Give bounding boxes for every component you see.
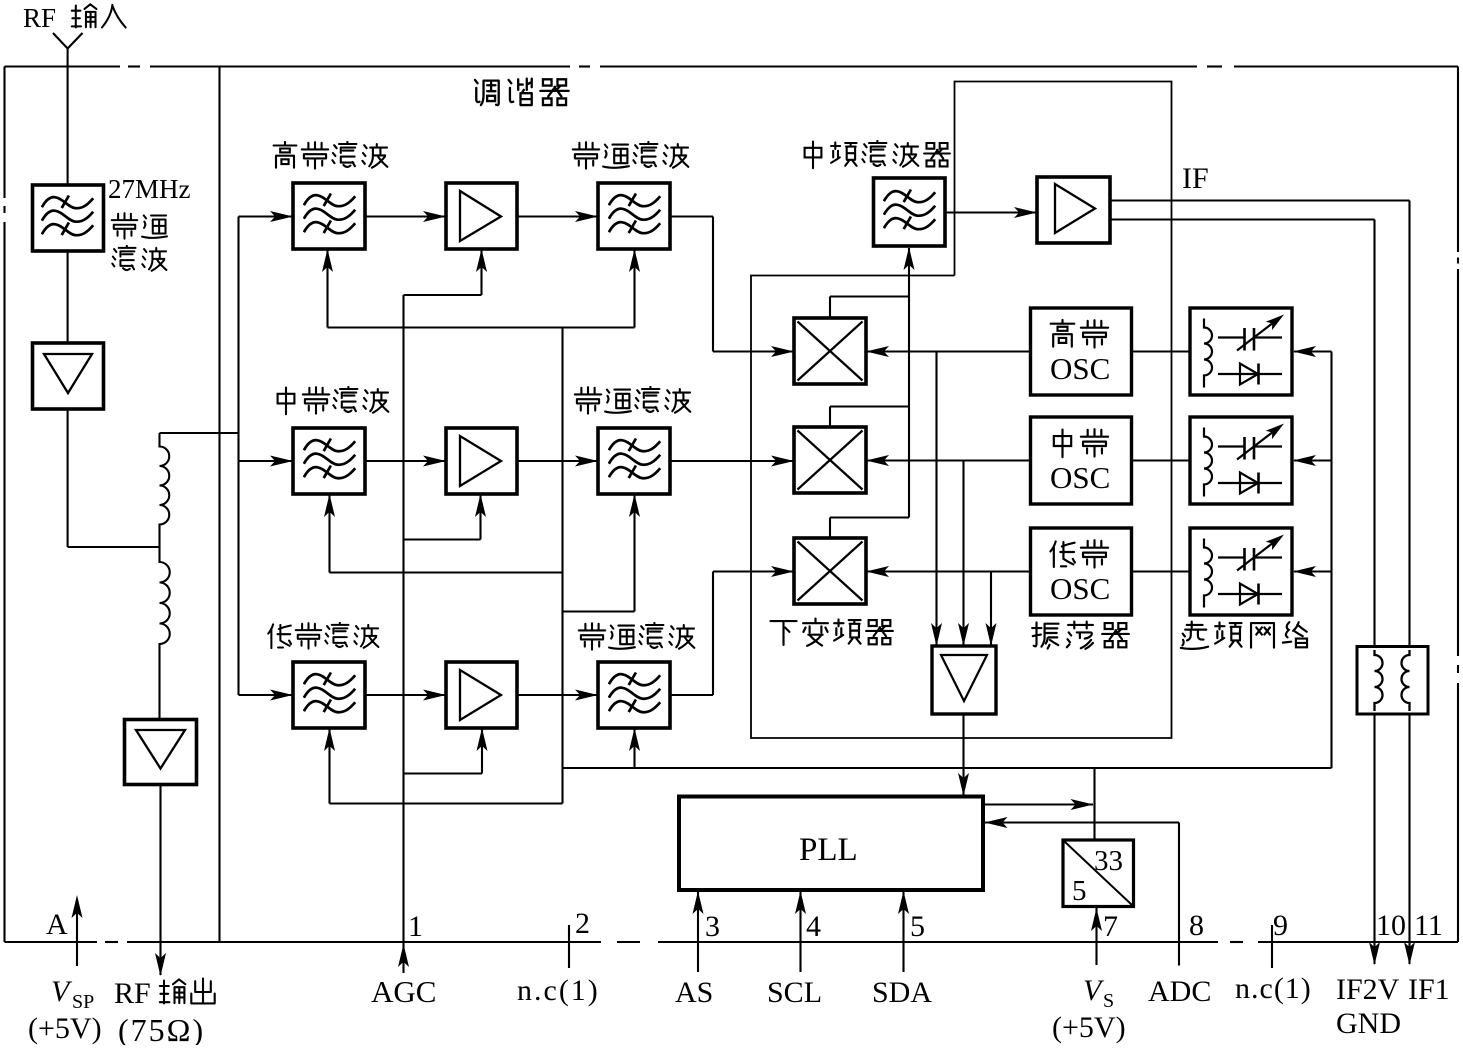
label nc1 right bbox=[1235, 972, 1312, 1005]
label downconverter bbox=[770, 619, 892, 646]
bandpass filter box row3 bbox=[598, 662, 670, 728]
svg-text:ADC: ADC bbox=[1148, 975, 1211, 1008]
tuning trunk wire bbox=[561, 328, 563, 804]
outer IC boundary left edge bbox=[3, 67, 5, 943]
svg-text:SCL: SCL bbox=[767, 976, 822, 1009]
label oscillator bbox=[1032, 622, 1129, 649]
tuner input trunk wire bbox=[237, 217, 239, 696]
IF2 output wire to pin10 bbox=[1110, 220, 1375, 647]
tuning voltage wire to tank3 bbox=[1293, 566, 1332, 577]
node A supply arrow bbox=[72, 895, 83, 966]
svg-text:IF1: IF1 bbox=[1408, 973, 1450, 1006]
label VSP +5V bbox=[28, 975, 102, 1045]
pin number 8 bbox=[1189, 909, 1204, 942]
mixer M3 box bbox=[794, 538, 866, 604]
svg-text:9: 9 bbox=[1273, 909, 1288, 942]
amplifier A2 (down) box bbox=[125, 720, 197, 785]
wire pin11 below transformer bbox=[1404, 714, 1415, 965]
label bandpass filter row3 bbox=[579, 623, 695, 650]
pin 3 AS wire bbox=[693, 890, 704, 972]
filter F1 27MHz bandpass box bbox=[33, 185, 104, 251]
amplifier A3 (down) box bbox=[932, 646, 996, 714]
wire OSC3 to tank3 bbox=[1132, 570, 1191, 572]
wire filter to amplifier row3 bbox=[365, 690, 446, 701]
outer IC boundary right edge bbox=[1457, 67, 1459, 943]
svg-text:S: S bbox=[1103, 990, 1114, 1012]
label mid-band filter bbox=[278, 387, 389, 414]
filter box row2 bbox=[293, 428, 365, 494]
wire IF filter to IF amp bbox=[945, 207, 1037, 218]
svg-text:IF: IF bbox=[1182, 162, 1209, 195]
svg-text:7: 7 bbox=[1103, 910, 1118, 943]
label ADC bbox=[1148, 975, 1211, 1008]
tuning feedback line row1 bbox=[322, 249, 640, 328]
label nc1 left bbox=[517, 974, 600, 1007]
filter box row1 bbox=[293, 183, 365, 249]
pin number 11 bbox=[1414, 909, 1443, 942]
svg-text:AGC: AGC bbox=[371, 974, 436, 1009]
tuner title bbox=[475, 79, 569, 105]
wire amplifier to bandpass row2 bbox=[517, 456, 598, 467]
mixer2 IF output jog bbox=[830, 407, 909, 428]
tuning feedback to bandpass2 bbox=[563, 494, 641, 612]
wire PLL to divider bbox=[983, 799, 1094, 810]
label A bbox=[46, 908, 68, 941]
wire bus to divider bbox=[1093, 768, 1095, 840]
wire amplifier to bandpass row3 bbox=[517, 690, 598, 701]
svg-text:4: 4 bbox=[806, 910, 821, 943]
label AGC bbox=[371, 974, 436, 1009]
amplifier box row1 bbox=[446, 183, 517, 249]
transformer T1 box bbox=[1357, 647, 1428, 715]
label IF1 bbox=[1408, 973, 1450, 1006]
svg-text:(75Ω): (75Ω) bbox=[118, 1012, 205, 1045]
label RF output 75ohm bbox=[114, 977, 215, 1048]
label bandpass filter row1 bbox=[573, 142, 689, 169]
wire A3 to PLL bbox=[958, 714, 969, 796]
mixer M1 box bbox=[794, 318, 866, 384]
pin number 10 bbox=[1376, 909, 1406, 942]
svg-text:A: A bbox=[46, 908, 68, 941]
amplifier A1 (down) box bbox=[33, 343, 104, 409]
AGC feedback to amp1 bbox=[404, 249, 488, 295]
outer IC boundary bottom edge bbox=[5, 941, 1459, 943]
mixer M2 box bbox=[794, 427, 866, 493]
wire VS pin7 to divider bbox=[1091, 907, 1102, 966]
wire filter to amplifier row1 bbox=[365, 211, 446, 222]
divider 33/5 box bbox=[1063, 840, 1134, 907]
label IF bbox=[1182, 162, 1209, 195]
wire A1 down and right to coil tap bbox=[68, 409, 160, 547]
IF bus wire to IF filter bbox=[904, 247, 915, 518]
bandpass filter box row1 bbox=[598, 183, 670, 249]
pin 9 tick bbox=[1271, 925, 1273, 968]
label AS bbox=[675, 976, 713, 1009]
label bandpass filter row2 bbox=[575, 387, 691, 414]
wire A2 to RF output pin bbox=[155, 785, 166, 977]
wire row3 LO to AGC amp bbox=[986, 572, 997, 647]
filter IF box bbox=[874, 178, 946, 246]
svg-text:SDA: SDA bbox=[872, 976, 932, 1009]
svg-text:1: 1 bbox=[408, 910, 423, 943]
label IF2V GND bbox=[1336, 973, 1401, 1040]
wire amplifier to bandpass row1 bbox=[517, 211, 598, 222]
svg-text:IF2V: IF2V bbox=[1336, 973, 1400, 1006]
svg-text:27MHz: 27MHz bbox=[108, 174, 191, 204]
LO wire OSC1 to mixer1 bbox=[866, 346, 1031, 357]
tuning voltage riser wire bbox=[1330, 352, 1332, 769]
svg-text:33: 33 bbox=[1094, 845, 1123, 877]
wire OSC1 to tank1 bbox=[1132, 350, 1191, 352]
svg-text:11: 11 bbox=[1414, 909, 1443, 942]
wire trunk to filter row2 bbox=[239, 456, 294, 467]
PLL box bbox=[679, 797, 983, 891]
svg-text:OSC: OSC bbox=[1050, 460, 1110, 495]
AGC feedback to amp2 bbox=[404, 494, 487, 540]
svg-text:OSC: OSC bbox=[1050, 351, 1110, 386]
svg-text:3: 3 bbox=[705, 910, 720, 943]
wire bandpass3 to mixer3 bbox=[670, 566, 794, 695]
pin number 2 bbox=[575, 907, 590, 940]
pin number 5 bbox=[910, 910, 925, 943]
label low-band filter bbox=[268, 623, 378, 649]
svg-text:8: 8 bbox=[1189, 909, 1204, 942]
pin 5 SDA wire bbox=[898, 890, 909, 972]
label IF filter bbox=[805, 141, 950, 168]
svg-text:n.c(1): n.c(1) bbox=[1235, 972, 1312, 1005]
filter box row3 bbox=[293, 662, 365, 728]
svg-text:PLL: PLL bbox=[799, 832, 858, 868]
bandpass filter box row2 bbox=[598, 428, 670, 494]
pin number 9 bbox=[1273, 909, 1288, 942]
AGC trunk wire pin1 bbox=[398, 295, 409, 973]
oscillator OSC2 mid-band box bbox=[1031, 417, 1132, 504]
varactor tank network 3 box bbox=[1190, 528, 1292, 615]
varactor tank network 2 box bbox=[1190, 417, 1292, 504]
wire coil top to tuner input trunk bbox=[160, 432, 239, 434]
label high-band filter bbox=[274, 142, 388, 169]
svg-text:(+5V): (+5V) bbox=[1052, 1011, 1126, 1044]
outer IC boundary top edge bbox=[5, 65, 1459, 67]
mixer1 IF output jog bbox=[830, 297, 909, 319]
wire F1 to amp A1 bbox=[67, 251, 69, 343]
wire pin10 below transformer bbox=[1369, 714, 1380, 965]
tuning bus wire bbox=[563, 767, 1332, 769]
svg-text:GND: GND bbox=[1336, 1007, 1401, 1040]
tuning feedback to bandpass3 bbox=[629, 728, 640, 768]
RF input label bbox=[23, 3, 126, 33]
svg-text:(+5V): (+5V) bbox=[28, 1012, 102, 1045]
oscillator OSC3 low-band box bbox=[1031, 528, 1132, 615]
label SDA bbox=[872, 976, 932, 1009]
pin number 7 bbox=[1103, 910, 1118, 943]
LO wire OSC2 to mixer2 bbox=[866, 455, 1031, 466]
amplifier box row2 bbox=[446, 428, 517, 494]
svg-text:SP: SP bbox=[72, 991, 94, 1013]
svg-text:5: 5 bbox=[1072, 875, 1087, 907]
svg-text:2: 2 bbox=[575, 907, 590, 940]
IF1 output wire to pin11 bbox=[1110, 201, 1410, 647]
pin number 3 bbox=[705, 910, 720, 943]
wire row1 LO to AGC amp bbox=[931, 352, 942, 647]
tuning voltage wire to tank1 bbox=[1293, 346, 1332, 357]
svg-text:10: 10 bbox=[1376, 909, 1406, 942]
pin number 4 bbox=[806, 910, 821, 943]
wire bandpass1 to mixer1 bbox=[670, 217, 794, 358]
tuning voltage wire to tank2 bbox=[1293, 455, 1332, 466]
antenna symbol bbox=[53, 33, 83, 185]
label SCL bbox=[767, 976, 822, 1009]
inductor coil L2 lower bbox=[160, 547, 170, 720]
svg-text:RF: RF bbox=[114, 977, 151, 1010]
amplifier IF box bbox=[1037, 177, 1110, 243]
wire bandpass2 to mixer2 bbox=[670, 456, 794, 467]
tuning feedback to filter3 bbox=[324, 728, 563, 804]
pin number 1 bbox=[408, 910, 423, 943]
amplifier box row3 bbox=[446, 662, 517, 728]
mixer3 IF output jog bbox=[830, 518, 909, 539]
thin inner boundary box (mixer/OSC section) bbox=[751, 82, 1172, 739]
pin 4 SCL wire bbox=[795, 890, 806, 972]
svg-text:AS: AS bbox=[675, 976, 713, 1009]
AGC feedback to amp3 bbox=[404, 728, 488, 774]
inner divider wire between RF section and tuner bbox=[218, 67, 220, 943]
inductor coil L1 upper bbox=[160, 433, 170, 547]
pin 2 tick bbox=[568, 925, 570, 968]
wire ADC pin8 to PLL bbox=[985, 817, 1180, 966]
wire row2 LO to AGC amp bbox=[958, 461, 969, 647]
oscillator OSC1 high-band box bbox=[1031, 308, 1132, 395]
wire filter to amplifier row2 bbox=[365, 456, 446, 467]
svg-text:n.c(1): n.c(1) bbox=[517, 974, 600, 1007]
svg-text:RF: RF bbox=[23, 3, 56, 33]
LO wire OSC3 to mixer3 bbox=[866, 566, 1031, 577]
svg-text:5: 5 bbox=[910, 910, 925, 943]
wire OSC2 to tank2 bbox=[1132, 459, 1191, 461]
27MHz bandpass filter label bbox=[108, 174, 191, 271]
tuning feedback to filter2 bbox=[324, 494, 563, 573]
label VS +5V bbox=[1052, 974, 1126, 1044]
wire trunk to filter row1 bbox=[239, 211, 294, 222]
label tuning network bbox=[1181, 622, 1307, 649]
varactor tank network 1 box bbox=[1190, 308, 1292, 395]
wire trunk to filter row3 bbox=[239, 690, 294, 701]
svg-text:OSC: OSC bbox=[1050, 571, 1110, 606]
